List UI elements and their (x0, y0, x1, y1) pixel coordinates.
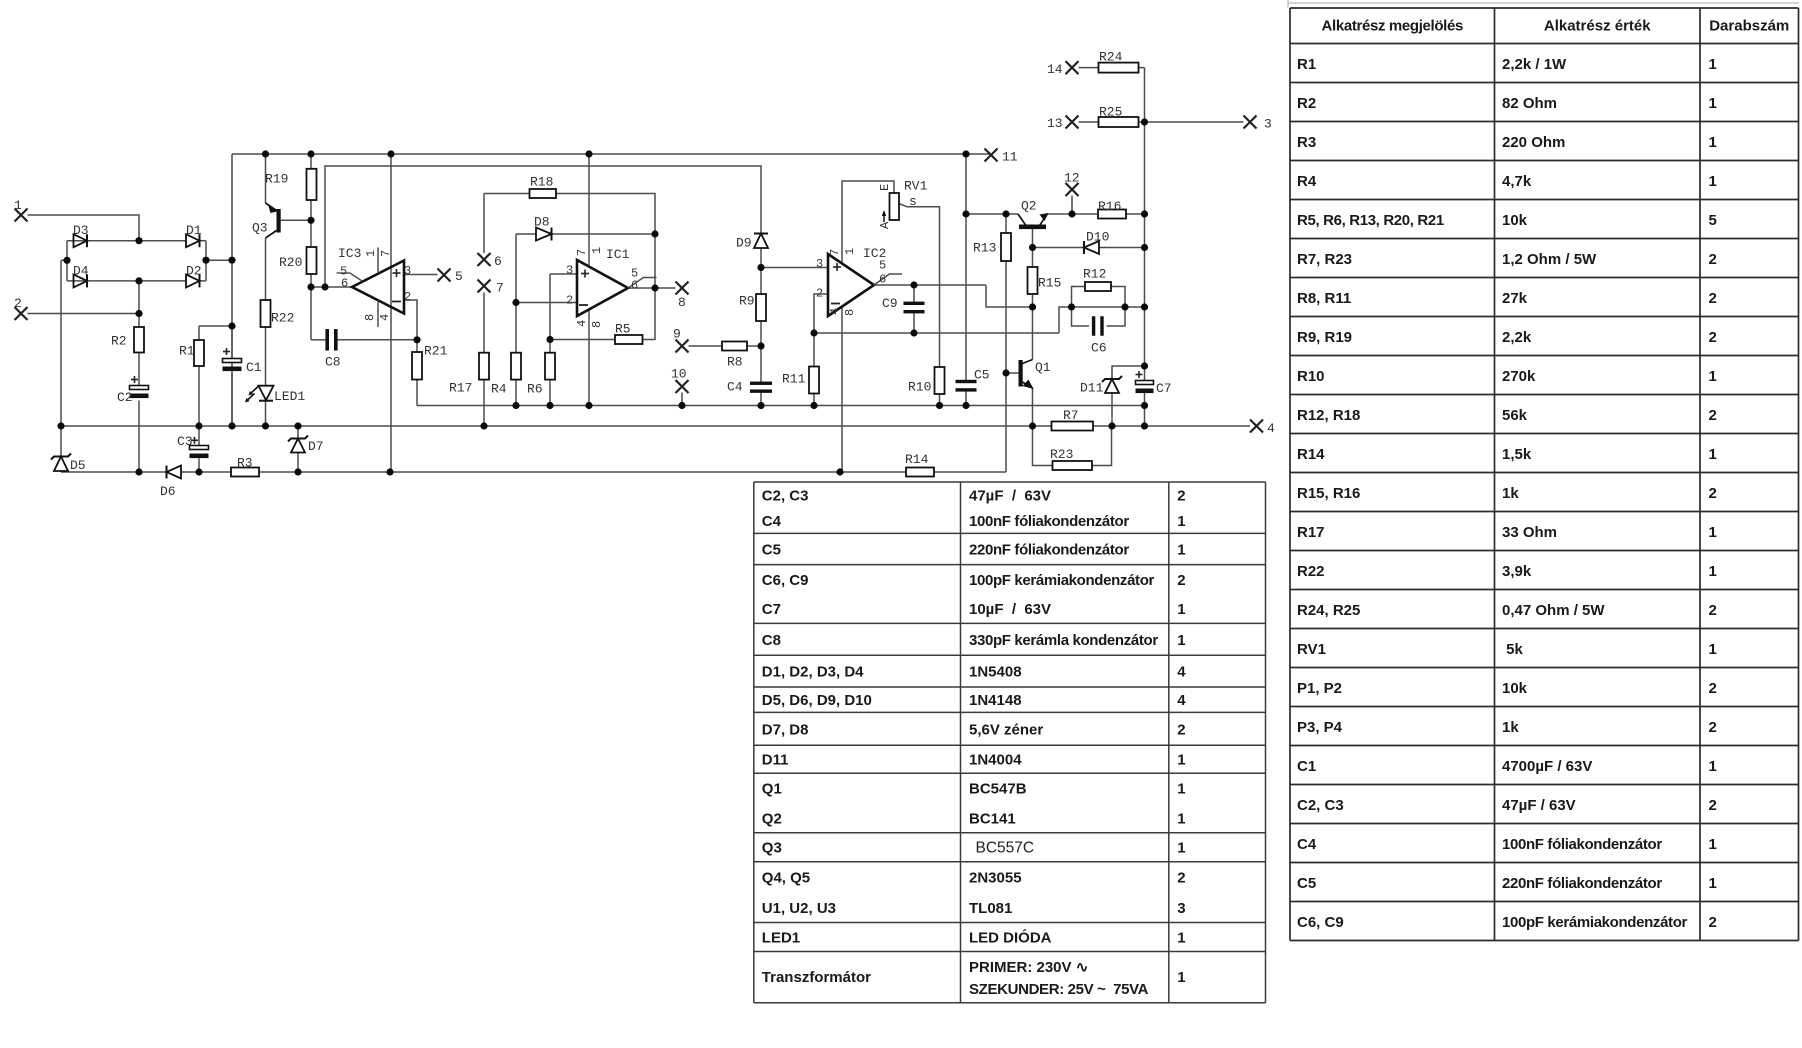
svg-text:BC547B: BC547B (969, 781, 1027, 798)
svg-text:R9, R19: R9, R19 (1297, 329, 1352, 346)
svg-text:4: 4 (575, 320, 589, 327)
svg-text:220nF fóliakondenzátor: 220nF fóliakondenzátor (1502, 875, 1662, 892)
svg-text:2: 2 (1709, 329, 1717, 346)
svg-text:RV1: RV1 (1297, 641, 1326, 658)
svg-text:D1, D2, D3, D4: D1, D2, D3, D4 (762, 664, 864, 681)
svg-text:R17: R17 (1297, 524, 1325, 541)
svg-text:2: 2 (1709, 914, 1717, 931)
svg-text:1: 1 (14, 198, 22, 213)
svg-text:D1: D1 (186, 223, 202, 238)
svg-text:R12, R18: R12, R18 (1297, 407, 1360, 424)
svg-text:R15, R16: R15, R16 (1297, 485, 1360, 502)
svg-text:1N4004: 1N4004 (969, 752, 1022, 769)
svg-text:A: A (878, 221, 892, 229)
svg-text:1,2 Ohm / 5W: 1,2 Ohm / 5W (1502, 251, 1597, 268)
svg-text:D11: D11 (762, 752, 789, 769)
svg-text:D8: D8 (534, 215, 550, 230)
svg-text:1: 1 (1177, 542, 1185, 559)
svg-text:R3: R3 (1297, 134, 1316, 151)
svg-text:C7: C7 (1156, 381, 1172, 396)
svg-text:C5: C5 (974, 368, 990, 383)
svg-text:P3, P4: P3, P4 (1297, 719, 1343, 736)
svg-text:1N5408: 1N5408 (969, 664, 1022, 681)
svg-text:1: 1 (590, 247, 604, 254)
svg-text:330pF kerámla kondenzátor: 330pF kerámla kondenzátor (969, 632, 1158, 649)
svg-text:2: 2 (1177, 487, 1185, 504)
svg-text:E: E (878, 184, 892, 191)
svg-text:2: 2 (1709, 797, 1717, 814)
svg-text:Q3: Q3 (252, 221, 268, 236)
svg-text:C5: C5 (1297, 875, 1316, 892)
svg-text:3: 3 (1177, 900, 1185, 917)
svg-text:C1: C1 (1297, 758, 1316, 775)
svg-text:6: 6 (341, 277, 348, 291)
svg-text:D3: D3 (73, 223, 89, 238)
svg-text:LED1: LED1 (274, 389, 305, 404)
svg-text:C2, C3: C2, C3 (762, 487, 809, 504)
svg-text:1: 1 (1709, 56, 1717, 73)
svg-text:LED1: LED1 (762, 930, 800, 947)
svg-text:3: 3 (1264, 117, 1272, 132)
svg-text:12: 12 (1064, 171, 1080, 186)
svg-text:D6: D6 (160, 484, 176, 499)
svg-text:D9: D9 (736, 236, 752, 251)
svg-text:9: 9 (673, 327, 681, 342)
svg-text:5: 5 (1709, 212, 1717, 229)
svg-text:Q2: Q2 (1021, 199, 1037, 214)
svg-text:1,5k: 1,5k (1502, 446, 1532, 463)
svg-text:C8: C8 (762, 632, 781, 649)
svg-text:C2, C3: C2, C3 (1297, 797, 1344, 814)
svg-text:2: 2 (566, 294, 573, 308)
svg-text:1: 1 (1709, 95, 1717, 112)
svg-text:3: 3 (404, 264, 411, 278)
svg-text:R17: R17 (449, 381, 472, 396)
svg-text:100pF kerámiakondenzátor: 100pF kerámiakondenzátor (1502, 914, 1688, 931)
svg-text:10k: 10k (1502, 212, 1528, 229)
svg-text:D10: D10 (1086, 230, 1109, 245)
svg-text:2: 2 (1709, 602, 1717, 619)
svg-text:2: 2 (1709, 251, 1717, 268)
svg-text:C2: C2 (117, 390, 133, 405)
svg-text:R15: R15 (1038, 276, 1061, 291)
svg-text:R14: R14 (1297, 446, 1325, 463)
svg-text:2: 2 (14, 296, 22, 311)
svg-text:Q3: Q3 (762, 839, 782, 856)
svg-text:11: 11 (1002, 150, 1018, 165)
svg-text:1: 1 (1177, 752, 1185, 769)
svg-text:D5, D6, D9, D10: D5, D6, D9, D10 (762, 692, 872, 709)
svg-text:2: 2 (816, 287, 823, 301)
svg-text:3: 3 (566, 264, 573, 278)
svg-text:s: s (909, 194, 917, 209)
svg-text:Darabszám: Darabszám (1709, 18, 1789, 35)
svg-text:6: 6 (879, 273, 886, 287)
svg-text:TL081: TL081 (969, 900, 1012, 917)
svg-text:10µF / 63V: 10µF / 63V (969, 601, 1051, 618)
svg-text:R5: R5 (615, 322, 631, 337)
svg-text:R7, R23: R7, R23 (1297, 251, 1352, 268)
svg-text:R6: R6 (527, 382, 543, 397)
svg-text:C4: C4 (727, 380, 743, 395)
svg-text:Q1: Q1 (762, 781, 782, 798)
svg-text:1: 1 (1709, 641, 1717, 658)
svg-text:2: 2 (1709, 680, 1717, 697)
svg-text:R23: R23 (1050, 447, 1073, 462)
svg-text:13: 13 (1047, 116, 1063, 131)
svg-text:R25: R25 (1099, 105, 1122, 120)
svg-text:3: 3 (816, 257, 823, 271)
svg-text:C6: C6 (1091, 341, 1107, 356)
svg-text:1: 1 (1177, 969, 1185, 986)
svg-text:6: 6 (631, 279, 638, 293)
svg-text:1: 1 (1177, 810, 1185, 827)
svg-text:8: 8 (363, 314, 377, 321)
svg-text:4,7k: 4,7k (1502, 173, 1532, 190)
svg-text:1: 1 (1177, 839, 1185, 856)
svg-text:D5: D5 (70, 458, 86, 473)
svg-text:R12: R12 (1083, 267, 1106, 282)
svg-text:4: 4 (1177, 692, 1186, 709)
svg-text:1: 1 (1177, 513, 1185, 530)
svg-text:7: 7 (379, 250, 393, 257)
svg-text:R21: R21 (424, 344, 448, 359)
svg-text:270k: 270k (1502, 368, 1536, 385)
svg-text:C6, C9: C6, C9 (762, 572, 809, 589)
svg-text:IC1: IC1 (606, 247, 630, 262)
svg-text:2: 2 (1709, 290, 1717, 307)
svg-text:2: 2 (1709, 407, 1717, 424)
svg-text:2: 2 (1177, 572, 1185, 589)
svg-text:Alkatrész érték: Alkatrész érték (1544, 18, 1651, 35)
svg-text:R2: R2 (1297, 95, 1316, 112)
svg-text:C1: C1 (246, 360, 262, 375)
svg-text:100pF kerámiakondenzátor: 100pF kerámiakondenzátor (969, 572, 1155, 589)
svg-text:R14: R14 (905, 452, 929, 467)
svg-text:D4: D4 (73, 264, 89, 279)
svg-text:7: 7 (828, 249, 842, 256)
svg-text:14: 14 (1047, 62, 1063, 77)
svg-text:1: 1 (1709, 134, 1717, 151)
svg-text:R19: R19 (265, 172, 288, 187)
svg-text:5,6V zéner: 5,6V zéner (969, 721, 1043, 738)
svg-text:C4: C4 (1297, 836, 1317, 853)
svg-text:D7, D8: D7, D8 (762, 721, 809, 738)
svg-text:82 Ohm: 82 Ohm (1502, 95, 1557, 112)
svg-text:5: 5 (455, 269, 463, 284)
svg-text:4: 4 (378, 314, 392, 321)
svg-text:LED DIÓDA: LED DIÓDA (969, 929, 1052, 947)
svg-text:1: 1 (1709, 563, 1717, 580)
svg-text:C4: C4 (762, 513, 782, 530)
svg-text:Q4, Q5: Q4, Q5 (762, 869, 810, 886)
svg-text:47µF / 63V: 47µF / 63V (1502, 797, 1576, 814)
svg-text:BC141: BC141 (969, 810, 1016, 827)
svg-text:1: 1 (843, 248, 857, 255)
svg-text:4: 4 (1267, 421, 1275, 436)
svg-text:1: 1 (1709, 836, 1717, 853)
svg-text:5k: 5k (1502, 641, 1524, 658)
svg-text:4: 4 (1177, 664, 1186, 681)
svg-text:R20: R20 (279, 255, 302, 270)
svg-text:C9: C9 (882, 296, 898, 311)
svg-text:1: 1 (1709, 173, 1717, 190)
svg-text:100nF fóliakondenzátor: 100nF fóliakondenzátor (1502, 836, 1662, 853)
svg-text:2N3055: 2N3055 (969, 869, 1022, 886)
svg-text:1: 1 (1177, 930, 1185, 947)
svg-text:PRIMER: 230V ∿: PRIMER: 230V ∿ (969, 959, 1088, 976)
svg-text:R1: R1 (1297, 56, 1316, 73)
svg-text:1k: 1k (1502, 485, 1519, 502)
svg-text:6: 6 (494, 254, 502, 269)
svg-text:R10: R10 (908, 380, 931, 395)
svg-text:1k: 1k (1502, 719, 1519, 736)
svg-text:R10: R10 (1297, 368, 1325, 385)
svg-text:27k: 27k (1502, 290, 1528, 307)
svg-text:2: 2 (1177, 869, 1185, 886)
svg-text:4700µF / 63V: 4700µF / 63V (1502, 758, 1592, 775)
svg-text:P1, P2: P1, P2 (1297, 680, 1342, 697)
svg-text:SZEKUNDER: 25V ~ 75VA: SZEKUNDER: 25V ~ 75VA (969, 981, 1149, 998)
svg-text:100nF fóliakondenzátor: 100nF fóliakondenzátor (969, 513, 1129, 530)
svg-text:C8: C8 (325, 355, 341, 370)
svg-text:R24, R25: R24, R25 (1297, 602, 1360, 619)
svg-text:220nF fóliakondenzátor: 220nF fóliakondenzátor (969, 542, 1129, 559)
svg-text:R2: R2 (111, 334, 127, 349)
svg-text:2,2k / 1W: 2,2k / 1W (1502, 56, 1567, 73)
svg-text:R9: R9 (739, 294, 755, 309)
svg-text:47µF / 63V: 47µF / 63V (969, 487, 1051, 504)
svg-text:8: 8 (678, 295, 686, 310)
svg-text:2: 2 (1709, 719, 1717, 736)
svg-text:8: 8 (590, 321, 604, 328)
svg-text:R5, R6, R13, R20, R21: R5, R6, R13, R20, R21 (1297, 212, 1444, 229)
svg-text:R8: R8 (727, 355, 743, 370)
svg-text:Transzformátor: Transzformátor (762, 969, 871, 986)
svg-text:R8, R11: R8, R11 (1297, 290, 1351, 307)
svg-text:R24: R24 (1099, 50, 1123, 65)
svg-text:R22: R22 (271, 311, 294, 326)
svg-text:R13: R13 (973, 241, 996, 256)
svg-text:5: 5 (879, 259, 886, 273)
svg-text:C6, C9: C6, C9 (1297, 914, 1344, 931)
svg-text:4: 4 (828, 308, 842, 315)
svg-text:1: 1 (1177, 601, 1185, 618)
svg-text:R4: R4 (1297, 173, 1317, 190)
svg-text:R16: R16 (1098, 199, 1121, 214)
svg-text:2: 2 (1709, 485, 1717, 502)
svg-text:R1: R1 (179, 344, 195, 359)
svg-text:R7: R7 (1063, 408, 1079, 423)
svg-text:0,47 Ohm / 5W: 0,47 Ohm / 5W (1502, 602, 1605, 619)
svg-text:2: 2 (1177, 721, 1185, 738)
svg-text:Q1: Q1 (1035, 360, 1051, 375)
svg-text:7: 7 (575, 249, 589, 256)
svg-text:56k: 56k (1502, 407, 1528, 424)
svg-text:D7: D7 (308, 439, 324, 454)
svg-text:RV1: RV1 (904, 179, 928, 194)
svg-text:1N4148: 1N4148 (969, 692, 1022, 709)
svg-text:2,2k: 2,2k (1502, 329, 1532, 346)
svg-text:R18: R18 (530, 175, 553, 190)
svg-text:8: 8 (843, 309, 857, 316)
svg-text:Q2: Q2 (762, 810, 782, 827)
svg-text:7: 7 (496, 281, 504, 296)
svg-text:IC3: IC3 (338, 246, 361, 261)
svg-text:1: 1 (1709, 875, 1717, 892)
svg-text:R3: R3 (237, 456, 253, 471)
svg-text:D11: D11 (1080, 381, 1104, 396)
svg-text:3,9k: 3,9k (1502, 563, 1532, 580)
svg-text:1: 1 (1709, 446, 1717, 463)
svg-text:1: 1 (1709, 758, 1717, 775)
svg-text:33 Ohm: 33 Ohm (1502, 524, 1557, 541)
svg-text:C3: C3 (177, 434, 193, 449)
svg-text:R11: R11 (782, 372, 806, 387)
svg-text:D2: D2 (186, 264, 202, 279)
svg-text:U1, U2, U3: U1, U2, U3 (762, 900, 836, 917)
svg-text:1: 1 (1177, 632, 1185, 649)
svg-text:1: 1 (364, 250, 378, 257)
svg-text:R4: R4 (491, 382, 507, 397)
svg-text:BC557C: BC557C (976, 839, 1035, 856)
svg-text:C7: C7 (762, 601, 781, 618)
svg-text:220 Ohm: 220 Ohm (1502, 134, 1565, 151)
svg-text:2: 2 (404, 290, 411, 304)
svg-text:1: 1 (1177, 781, 1185, 798)
svg-text:10: 10 (671, 367, 687, 382)
svg-text:1: 1 (1709, 524, 1717, 541)
svg-text:C5: C5 (762, 542, 781, 559)
svg-text:Alkatrész megjelölés: Alkatrész megjelölés (1322, 18, 1463, 35)
svg-text:1: 1 (1709, 368, 1717, 385)
svg-text:10k: 10k (1502, 680, 1528, 697)
svg-text:R22: R22 (1297, 563, 1325, 580)
